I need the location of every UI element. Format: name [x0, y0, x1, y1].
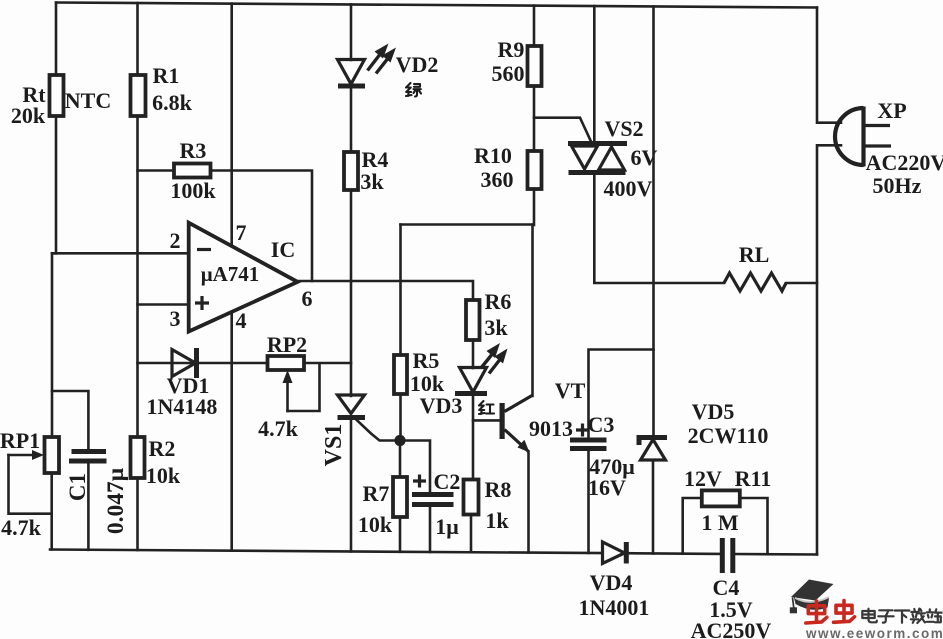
potentiometer RP2 body [268, 356, 305, 370]
node pin2 row [52, 252, 189, 255]
resistor RL zigzag [724, 273, 786, 291]
LED VD3 arrows [481, 353, 494, 369]
svg-text:1μ: 1μ [435, 514, 459, 539]
svg-text:IC: IC [271, 237, 295, 262]
svg-text:10k: 10k [146, 463, 181, 488]
svg-text:560: 560 [492, 61, 525, 86]
wire R7 bottom to rail [399, 517, 402, 552]
resistor Rt (NTC thermistor) [50, 75, 64, 116]
svg-text:16V: 16V [588, 475, 626, 500]
wire VD2 to R4 [350, 86, 353, 153]
svg-text:VD3: VD3 [420, 393, 463, 418]
svg-text:20k: 20k [11, 103, 46, 128]
wire C2 bottom to rail [429, 505, 432, 553]
resistor R9 [528, 46, 542, 86]
wire R9 to R10 [533, 86, 536, 152]
LED VD3 red symbol [460, 368, 487, 393]
svg-text:R2: R2 [149, 436, 176, 461]
svg-text:VD4: VD4 [590, 570, 633, 595]
VD2 green character lu [406, 83, 421, 97]
svg-text:C2: C2 [434, 469, 461, 494]
RP2 wiper arrow [286, 377, 289, 411]
wire R6 bottom to VD3 [472, 340, 475, 368]
wire RP2 wiper loop to right terminal [288, 364, 320, 411]
svg-text:R8: R8 [485, 477, 512, 502]
wire Rt bottom to inverting input row [55, 116, 58, 253]
svg-text:μA741: μA741 [201, 262, 260, 286]
wire R9 branch top [533, 6, 536, 47]
svg-text:R1: R1 [153, 63, 180, 88]
wire R3 feedback row [138, 171, 313, 282]
svg-text:100k: 100k [170, 178, 216, 203]
C2 plus sign [413, 475, 426, 488]
diode VD1 1N4148 row [138, 362, 352, 365]
svg-text:XP: XP [877, 98, 906, 123]
plug XP symbol [835, 108, 863, 165]
svg-text:3k: 3k [484, 315, 508, 340]
capacitor C3 plates [570, 438, 607, 443]
svg-text:1k: 1k [485, 508, 509, 533]
op-amp IC uA741 triangle [189, 223, 298, 332]
triac VS2 symbol [568, 141, 627, 146]
resistor R8 [464, 480, 479, 515]
node pin3 row [138, 303, 189, 306]
svg-text:0.047μ: 0.047μ [103, 467, 129, 534]
svg-text:6: 6 [302, 286, 313, 311]
svg-text:10k: 10k [358, 512, 393, 537]
wire RP1 bottom lead to rail [50, 473, 53, 550]
wire base row [473, 419, 500, 422]
wire C2 branch from junction [404, 441, 430, 494]
transistor VT 9013 base bar [500, 403, 505, 439]
wire op-amp output row [298, 281, 473, 301]
wire VD3 to base tee [472, 394, 475, 481]
wire VS1 cathode to rail [350, 418, 353, 552]
svg-text:1 M: 1 M [701, 510, 739, 535]
thyristor VS1 symbol [338, 395, 365, 414]
watermark graduation cap [790, 580, 834, 614]
svg-text:R7: R7 [363, 481, 390, 506]
svg-text:R5: R5 [413, 348, 440, 373]
transistor emitter [505, 430, 529, 452]
svg-text:12V: 12V [684, 466, 722, 491]
svg-text:2: 2 [170, 228, 181, 253]
wire bottom rail left segment [50, 550, 603, 554]
svg-text:3k: 3k [360, 169, 384, 194]
svg-text:AC250V: AC250V [691, 618, 772, 639]
resistor R11 [702, 490, 740, 506]
wire bottom rail right segment [735, 553, 818, 556]
potentiometer RP1 body [45, 437, 60, 473]
wire supply branch from top rail [652, 6, 655, 438]
svg-text:3: 3 [170, 306, 181, 331]
wire VS1 gate [354, 418, 400, 441]
node junction dot gate/R5/R7/C2 [394, 435, 405, 446]
svg-text:RL: RL [739, 242, 770, 267]
diode VD4 1N4001 symbol in bottom rail [603, 542, 625, 564]
svg-text:VD5: VD5 [692, 399, 735, 424]
wire neutral from plug down right side [817, 145, 841, 554]
LED VD2 arrows [368, 53, 382, 71]
wire triac branch top [593, 6, 596, 144]
op-amp plus sign [195, 296, 209, 310]
resistor R5 [394, 355, 407, 394]
svg-text:VS2: VS2 [604, 116, 643, 141]
wire R10 bottom to collector line [533, 189, 536, 225]
svg-text:VS1: VS1 [321, 424, 347, 467]
svg-text:C3: C3 [588, 412, 615, 437]
resistor R6 [466, 300, 480, 340]
svg-text:R11: R11 [735, 466, 772, 491]
wire R5 bottom to junction [399, 394, 402, 441]
svg-text:1N4148: 1N4148 [147, 394, 218, 419]
resistor R3 [174, 164, 211, 178]
svg-text:400V: 400V [604, 176, 653, 201]
wire top power rail [56, 3, 817, 8]
wire triac bottom to RL row [594, 173, 724, 284]
wire top-right corner down to plug live pin [817, 8, 841, 123]
wire C3 bottom to rail [587, 449, 590, 554]
resistor R1 [131, 75, 146, 116]
capacitor C4 plates [720, 538, 725, 573]
plug pins [864, 124, 890, 127]
resistor R4 [344, 152, 358, 190]
wire C1 bottom to rail [87, 461, 90, 550]
wire R11 loop right [740, 498, 768, 554]
resistor R2 [131, 437, 145, 478]
resistor R7 [393, 477, 407, 517]
wire left branch lower to RP1 [52, 253, 56, 437]
watermark site name dianzi xiazaizhan [862, 609, 941, 623]
svg-text:1N4001: 1N4001 [579, 595, 650, 620]
watermark chongchong red characters [806, 601, 855, 624]
svg-text:C1: C1 [65, 473, 90, 501]
svg-text:R3: R3 [180, 138, 207, 163]
wire collector up to R10 [531, 225, 534, 397]
VD3 red character hong [479, 401, 494, 414]
svg-text:2CW110: 2CW110 [688, 423, 769, 448]
wire R1 branch top [136, 3, 139, 76]
wire R2 bottom to rail [136, 478, 139, 550]
svg-text:R6: R6 [485, 289, 512, 314]
wire emitter to rail [527, 452, 530, 553]
wire triac gate row [534, 118, 591, 142]
wire pin 4 to bottom rail [230, 313, 233, 551]
wire VD2 branch top [350, 4, 353, 60]
wire R5 branch [399, 225, 402, 357]
svg-text:R9: R9 [498, 37, 525, 62]
svg-text:VD2: VD2 [396, 52, 439, 77]
wire R11 loop left [683, 498, 703, 554]
wire left branch upper (Rt branch) [55, 3, 58, 77]
wire pin 7 to top rail [230, 4, 233, 244]
svg-text:6.8k: 6.8k [152, 90, 193, 115]
svg-text:9013: 9013 [529, 416, 573, 441]
resistor R10 [528, 151, 542, 189]
op-amp minus sign [197, 248, 211, 251]
C3 plus sign [576, 424, 589, 437]
wire R4 bottom through output row to VS1 [350, 190, 353, 396]
svg-text:RP2: RP2 [267, 332, 307, 357]
svg-text:4.7k: 4.7k [258, 416, 299, 441]
svg-text:NTC: NTC [65, 88, 111, 113]
svg-text:R10: R10 [474, 143, 512, 168]
wire R1 bottom down through pin3 node to R2 [136, 116, 139, 438]
svg-text:VT: VT [555, 378, 586, 403]
diode VD1 symbol [172, 350, 196, 377]
wire RP1 wiper loop [9, 455, 52, 514]
wire zener bottom to rail [652, 460, 655, 553]
svg-text:4.7k: 4.7k [1, 515, 42, 540]
svg-text:www.eeworm.com: www.eeworm.com [805, 626, 943, 639]
RP1 wiper arrow [9, 454, 37, 457]
transistor collector [505, 396, 533, 412]
svg-text:RP1: RP1 [0, 428, 40, 453]
svg-text:7: 7 [236, 220, 247, 245]
capacitor C1 plates [72, 449, 107, 454]
wire R5 top row [401, 223, 534, 226]
wire C1 tee [52, 391, 88, 450]
wire junction to R7 [399, 441, 402, 479]
svg-text:AC220V: AC220V [866, 150, 943, 175]
capacitor C2 plates [412, 492, 454, 497]
zener diode VD5 2CW110 symbol [639, 438, 667, 446]
svg-text:4: 4 [236, 308, 247, 333]
wire C3 tee row [589, 350, 654, 439]
svg-text:50Hz: 50Hz [873, 173, 922, 198]
wire R8 bottom to rail [470, 515, 473, 553]
LED VD2 green symbol [338, 60, 365, 85]
wire bottom rail mid segment [626, 552, 720, 555]
wire RL right to neutral [786, 282, 817, 285]
svg-text:360: 360 [481, 167, 514, 192]
